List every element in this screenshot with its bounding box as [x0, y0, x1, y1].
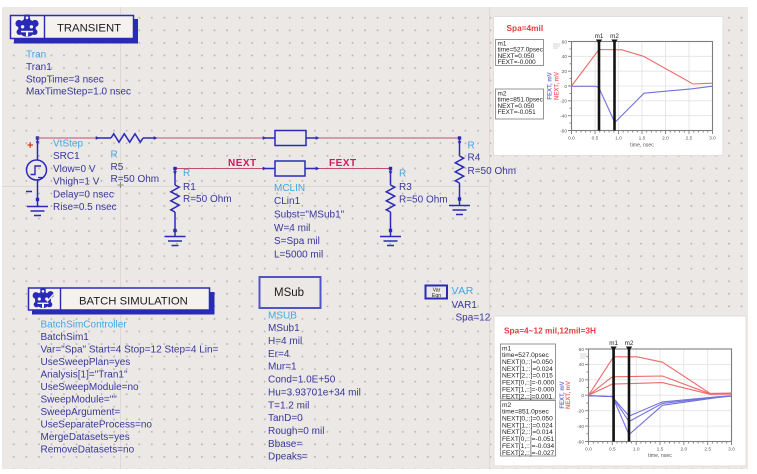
svg-text:Tran: Tran [26, 50, 46, 61]
svg-text:3.0: 3.0 [728, 447, 735, 453]
svg-text:R=50 Ohm: R=50 Ohm [183, 194, 232, 205]
VtStep SRC1 parameter text [53, 139, 117, 214]
plot panel Spa=4~12 mil [494, 316, 746, 466]
svg-text:CLin1: CLin1 [274, 196, 301, 207]
faint annotation 2 [580, 354, 587, 358]
svg-text:BatchSim1: BatchSim1 [41, 332, 90, 343]
svg-text:Dpeaks=: Dpeaks= [268, 452, 308, 463]
marker readout box m1 (bottom plot) [501, 344, 556, 400]
svg-text:Vhigh=1 V: Vhigh=1 V [53, 177, 100, 188]
marker readout box m1 (top plot) [496, 40, 544, 67]
svg-text:Spa=4~12 mil,12mil=3H: Spa=4~12 mil,12mil=3H [504, 326, 596, 336]
svg-text:MergeDatasets=yes: MergeDatasets=yes [41, 432, 130, 443]
bottom plot y-axis labels FEXT/NEXT mV [560, 381, 572, 409]
svg-text:-40: -40 [560, 113, 567, 119]
simulation controller block TRANSIENT [11, 15, 139, 44]
svg-text:40: 40 [579, 362, 585, 368]
svg-text:Tran1: Tran1 [26, 62, 52, 73]
svg-text:R: R [183, 168, 190, 179]
svg-text:R=50 Ohm: R=50 Ohm [468, 166, 517, 177]
top plot marker m1 [595, 33, 604, 131]
svg-text:2.5: 2.5 [704, 447, 711, 453]
svg-text:0.0: 0.0 [585, 447, 592, 453]
svg-text:0.0: 0.0 [568, 136, 575, 142]
bottom plot marker m1 [609, 340, 618, 442]
svg-text:m2: m2 [610, 33, 619, 40]
svg-text:3.0: 3.0 [709, 136, 716, 142]
resistor R1 [165, 167, 186, 246]
svg-text:VtStep: VtStep [53, 139, 83, 150]
svg-text:Vlow=0 V: Vlow=0 V [53, 164, 96, 175]
svg-text:UseSweepModule=no: UseSweepModule=no [41, 382, 140, 393]
svg-text:R: R [399, 169, 406, 180]
top plot FEXT curve (blue) [572, 86, 713, 122]
svg-text:Cond=1.0E+50: Cond=1.0E+50 [268, 375, 336, 386]
svg-text:Spa=4mil: Spa=4mil [507, 23, 544, 33]
svg-text:-40: -40 [577, 424, 584, 430]
svg-text:m2: m2 [625, 340, 634, 347]
svg-text:0: 0 [581, 393, 584, 399]
svg-text:TanD=0: TanD=0 [268, 413, 303, 424]
R3 labels [399, 169, 448, 206]
svg-text:1.0: 1.0 [615, 136, 622, 142]
R5 labels [111, 150, 160, 186]
marker readout box m2 (bottom plot) [501, 401, 556, 457]
svg-text:20: 20 [562, 69, 568, 75]
svg-text:2.5: 2.5 [686, 136, 693, 142]
resistor R4 [449, 136, 470, 214]
bottom plot axes [577, 347, 735, 453]
svg-text:TRANSIENT: TRANSIENT [57, 23, 121, 35]
svg-text:MCLIN: MCLIN [274, 183, 305, 194]
top plot y-axis labels FEXT/NEXT mV [548, 72, 561, 100]
svg-text:-20: -20 [560, 99, 567, 105]
svg-text:MSub: MSub [274, 287, 304, 299]
svg-text:40: 40 [562, 54, 568, 60]
svg-text:NEXT, mV: NEXT, mV [566, 381, 572, 409]
svg-text:2.0: 2.0 [680, 447, 687, 453]
bottom plot marker m2 [625, 340, 634, 442]
svg-text:VAR1: VAR1 [452, 300, 478, 311]
svg-text:FEXT=-0.051: FEXT=-0.051 [498, 109, 537, 116]
svg-text:2.0: 2.0 [662, 136, 669, 142]
svg-text:W=4 mil: W=4 mil [274, 223, 310, 234]
R1 labels [183, 168, 232, 205]
svg-text:R: R [468, 140, 475, 151]
batch simulation controller block [29, 288, 215, 315]
svg-text:BatchSimController: BatchSimController [41, 319, 128, 330]
substrate box MSub [260, 277, 321, 308]
svg-text:FEXT[2,::]=-0.027: FEXT[2,::]=-0.027 [502, 450, 555, 457]
svg-text:0.5: 0.5 [609, 447, 616, 453]
svg-text:0: 0 [564, 84, 567, 90]
svg-text:m1: m1 [595, 33, 604, 40]
svg-text:S=Spa mil: S=Spa mil [274, 236, 320, 247]
svg-text:NEXT, mV: NEXT, mV [555, 72, 561, 100]
coupled line MCLIN CLin1 [263, 131, 320, 177]
svg-text:-60: -60 [577, 439, 584, 445]
wire: source to R5 [38, 137, 98, 139]
svg-text:R5: R5 [111, 162, 124, 173]
faint annotation [553, 44, 560, 48]
svg-text:MaxTimeStep=1.0 nsec: MaxTimeStep=1.0 nsec [26, 87, 131, 98]
marker readout box m2 (top plot) [496, 89, 544, 119]
svg-text:SweepModule="": SweepModule="" [41, 394, 118, 405]
svg-text:60: 60 [562, 39, 568, 45]
svg-text:BATCH SIMULATION: BATCH SIMULATION [79, 295, 188, 307]
svg-text:time, nsec: time, nsec [648, 453, 672, 459]
grid origin cross [118, 182, 124, 188]
svg-text:MSub1: MSub1 [268, 323, 300, 334]
svg-text:Delay=0 nsec: Delay=0 nsec [53, 189, 114, 200]
svg-text:StopTime=3 nsec: StopTime=3 nsec [26, 74, 104, 85]
svg-text:R4: R4 [468, 153, 481, 164]
wire: R5 to MCLIN pin1 [155, 137, 264, 139]
svg-text:0.5: 0.5 [592, 136, 599, 142]
svg-text:SweepArgument=: SweepArgument= [41, 407, 121, 418]
wire: NEXT net R1 to MCLIN pin3 [175, 168, 264, 170]
svg-text:H=4 mil: H=4 mil [268, 336, 302, 347]
Tran controller parameter text [26, 50, 131, 98]
svg-text:FEXT=-0.000: FEXT=-0.000 [498, 59, 537, 66]
BatchSim controller parameter text [41, 319, 219, 455]
MCLIN labels [274, 183, 345, 261]
svg-text:time, nsec: time, nsec [630, 143, 654, 149]
MSUB parameter text [268, 310, 361, 462]
major grid axis lines [2, 7, 490, 469]
svg-text:-20: -20 [577, 408, 584, 414]
svg-text:Eqn: Eqn [432, 293, 441, 299]
svg-text:-60: -60 [560, 128, 567, 134]
resistor R3 [380, 167, 401, 246]
svg-text:1.0: 1.0 [633, 447, 640, 453]
svg-text:R1: R1 [183, 182, 196, 193]
svg-text:Spa=12: Spa=12 [456, 313, 491, 324]
svg-text:m1: m1 [609, 340, 618, 347]
svg-text:VAR: VAR [452, 285, 474, 297]
svg-text:20: 20 [579, 378, 585, 384]
variable equation block VAR1 [426, 286, 448, 300]
svg-text:L=5000 mil: L=5000 mil [274, 250, 323, 261]
svg-text:Er=4: Er=4 [268, 349, 290, 360]
wire: FEXT net MCLIN pin4 to R3 [317, 168, 391, 170]
svg-text:R: R [111, 150, 118, 161]
resistor R5 [96, 134, 158, 142]
svg-text:MSUB: MSUB [268, 310, 297, 321]
svg-text:FEXT, mV: FEXT, mV [548, 72, 554, 99]
plot panel Spa=4mil [494, 17, 724, 156]
svg-text:Bbase=: Bbase= [268, 439, 302, 450]
svg-text:FEXT: FEXT [329, 158, 357, 169]
bottom plot FEXT curves (blue x3) [589, 396, 732, 435]
svg-text:UseSeparateProcess=no: UseSeparateProcess=no [41, 419, 153, 430]
svg-text:UseSweepPlan=yes: UseSweepPlan=yes [41, 357, 131, 368]
svg-text:60: 60 [579, 347, 585, 353]
svg-text:RemoveDatasets=no: RemoveDatasets=no [41, 444, 135, 455]
svg-text:Hu=3.93701e+34 mil: Hu=3.93701e+34 mil [268, 387, 361, 398]
top plot NEXT curve (red) [572, 50, 713, 87]
R4 labels [468, 140, 517, 177]
VAR labels [452, 285, 491, 324]
svg-text:R=50 Ohm: R=50 Ohm [111, 174, 160, 185]
top plot axes [560, 39, 716, 141]
svg-text:Var="Spa" Start=4 Stop=12 Step: Var="Spa" Start=4 Stop=12 Step=4 Lin= [41, 344, 219, 355]
svg-text:T=1.2 mil: T=1.2 mil [268, 400, 309, 411]
svg-text:Subst="MSub1": Subst="MSub1" [274, 210, 345, 221]
svg-text:NEXT: NEXT [228, 158, 257, 169]
svg-text:FEXT[2,::]=0.001: FEXT[2,::]=0.001 [502, 393, 552, 400]
wire: MCLIN pin2 to R4 [317, 137, 460, 139]
svg-text:Rise=0.5 nsec: Rise=0.5 nsec [53, 202, 117, 213]
voltage source VtStep SRC1 [26, 136, 48, 215]
svg-text:Mur=1: Mur=1 [268, 362, 297, 373]
svg-text:Rough=0 mil: Rough=0 mil [268, 426, 324, 437]
bottom plot NEXT curves (red x3) [589, 357, 732, 396]
svg-text:SRC1: SRC1 [53, 151, 80, 162]
svg-text:R=50 Ohm: R=50 Ohm [399, 195, 448, 206]
svg-text:1.5: 1.5 [639, 136, 646, 142]
svg-text:1.5: 1.5 [657, 447, 664, 453]
svg-text:R3: R3 [399, 182, 412, 193]
svg-text:Analysis[1]="Tran1": Analysis[1]="Tran1" [41, 369, 128, 380]
top plot marker m2 [610, 33, 619, 131]
